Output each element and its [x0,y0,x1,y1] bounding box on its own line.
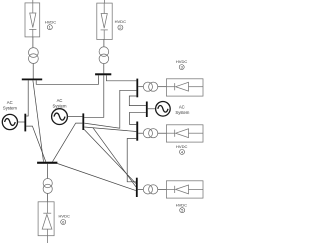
svg-text:HVDC: HVDC [59,214,70,219]
HVDC converter U1 (top-left box with valve) [25,3,40,37]
bus B6 [136,178,138,197]
wire B9 to B6 (line b) [93,128,136,187]
wire T5h to U5 [158,188,167,190]
bus B2 [95,73,111,75]
wire B7 to T6 [47,164,49,179]
wire B4 to G3 [148,108,156,110]
transformer T6 (bottom) [43,179,52,194]
wire B7 to B6 [57,164,135,191]
transformer T5h (HVDC 5 branch) [143,185,158,194]
transformer T2 [99,47,109,64]
svg-text:HVDC: HVDC [176,202,187,207]
wire B9 to B5 [84,127,136,132]
AC source G3 [156,102,171,117]
wire B2 to B9 [84,75,104,117]
wire B3 to T3h [138,86,143,88]
HVDC converter U5 (right box with valve) [166,181,203,198]
bus B5 [136,122,138,141]
wire T4h to U4 [158,132,167,134]
svg-text:AC: AC [7,100,13,105]
wire B9 to B3 [84,90,136,128]
bus B9 [82,113,84,130]
wire B1 to B8 [26,80,28,116]
HVDC converter U2 (top-middle box with valve) [97,3,112,39]
HVDC converter U4 (right box with valve) [166,125,203,142]
svg-text:HVDC: HVDC [45,19,56,24]
svg-text:HVDC: HVDC [115,19,126,24]
wire stub above converter U1 [32,0,34,3]
transformer T4h (HVDC 4 branch) [143,129,158,138]
AC source G2 [52,109,68,125]
wire U1 to T1 [32,37,34,48]
bus B4 [146,102,148,118]
wire T2 to bus B2 [103,64,105,74]
svg-text:HVDC: HVDC [176,59,187,64]
wire U2 to T2 [103,40,105,47]
svg-text:AC: AC [179,104,185,109]
AC source G1 [2,114,17,129]
svg-text:System: System [3,106,17,111]
transformer T1 [29,48,39,64]
wire stub below U6 [47,236,49,243]
wire B5 to T4h [138,132,143,134]
wire B1 to B7 [33,80,44,161]
wire B8 to B7 [26,126,46,162]
bus B7 [37,162,57,164]
wire B5 to B6 [127,139,136,182]
transformer T3h (HVDC 3 branch) [143,82,158,91]
svg-text:AC: AC [57,98,63,103]
wire B3 to B4 [129,96,146,106]
wire B2 to B3 [106,75,136,81]
bus B3 [136,79,138,98]
wire T6 to U6 [47,194,49,202]
wire B9 to B7 [53,123,83,162]
HVDC converter U3 (right box with valve) [166,79,203,96]
svg-text:System: System [175,110,189,115]
wire B4 to B5 [130,112,146,124]
wire G1 to B8 [18,121,25,123]
HVDC converter U6 (bottom box with valve) [38,202,54,236]
wire T3h to U3 [158,86,167,88]
wire G2 to B9 [67,116,82,118]
svg-text:HVDC: HVDC [176,144,187,149]
bus B1 [22,79,42,81]
wire T1 to bus B1 [32,64,34,79]
wire B6 to T5h [138,188,144,190]
svg-text:System: System [53,103,67,108]
wire B9 to B6 (line a) [84,130,136,184]
wire stub above converter U2 [103,0,105,3]
bus B8 [24,114,26,132]
wire B1 to B2 [36,75,98,84]
